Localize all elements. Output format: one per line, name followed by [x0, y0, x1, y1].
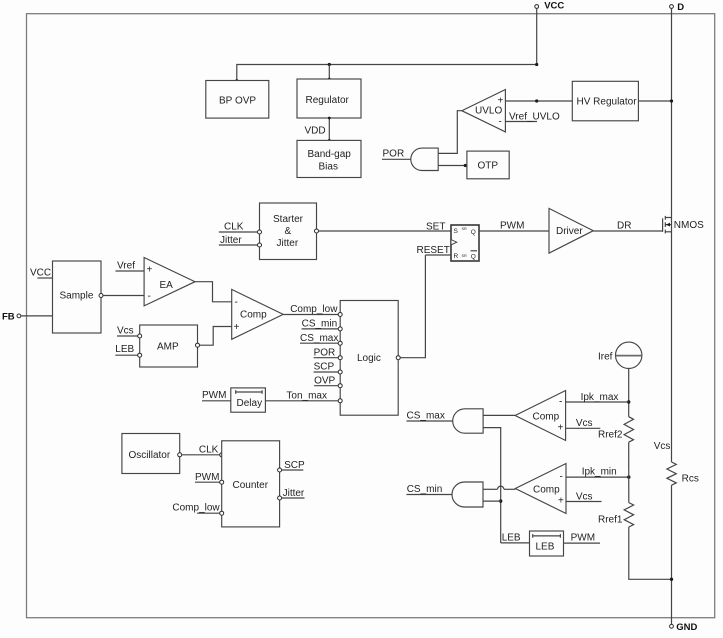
node at Rcs line: [670, 578, 673, 581]
svg-text:POR: POR: [383, 149, 405, 160]
svg-text:Bias: Bias: [319, 162, 338, 173]
svg-text:Comp: Comp: [533, 411, 560, 422]
svg-text:Rcs: Rcs: [682, 474, 699, 485]
svg-text:Jitter: Jitter: [277, 238, 299, 249]
wire Sample output to EA minus: [99, 294, 144, 298]
svg-text:Vcs: Vcs: [117, 326, 134, 337]
svg-text:Band-gap: Band-gap: [308, 149, 352, 160]
pin D: [670, 2, 685, 462]
wire gate lower input to LEB line: [483, 500, 501, 502]
block HV Regulator: [572, 81, 638, 121]
svg-text:Rref2: Rref2: [598, 430, 623, 441]
gate POR (AND): [411, 148, 438, 170]
transistor NMOS: [663, 216, 705, 234]
svg-text:PWM: PWM: [571, 533, 595, 544]
wire PWM stub into LEB block: [564, 533, 601, 544]
svg-text:+: +: [558, 423, 564, 434]
wire SET from Starter to latch: [315, 222, 452, 234]
svg-text:Rref1: Rref1: [598, 514, 623, 525]
svg-text:Starter: Starter: [273, 214, 304, 225]
wire UVLO plus input / VCC sense to HV Regulator: [505, 100, 572, 102]
svg-text:Iref: Iref: [598, 352, 613, 363]
block Logic: [340, 301, 398, 416]
wire Comp_low output to Logic: [283, 304, 340, 315]
svg-text:-: -: [499, 117, 502, 128]
wire VCC distribution top: [237, 65, 537, 81]
flip-flop SR latch: [451, 225, 479, 261]
node Ipk_max: [627, 400, 630, 403]
svg-text:GND: GND: [676, 622, 697, 633]
wire Vref stub to EA plus: [116, 261, 145, 272]
wire Jitter output stub: [278, 488, 305, 500]
svg-text:CS_max: CS_max: [300, 333, 338, 344]
node LEB at CS_min gate: [499, 499, 502, 502]
svg-text:PWM: PWM: [202, 390, 226, 401]
block Regulator: [297, 79, 361, 118]
op-amp EA: [144, 258, 195, 306]
wire Regulator drop: [328, 65, 330, 80]
svg-text:UVLO: UVLO: [475, 106, 502, 117]
wire VCC stub into Sample: [30, 268, 53, 279]
wire Rref2 to Rref1: [628, 442, 630, 502]
resistor Rref1: [598, 503, 634, 527]
wire Ipk_min to Comp minus: [566, 467, 629, 478]
svg-text:CS_min: CS_min: [302, 319, 338, 330]
wire CS_min stub into Logic: [302, 319, 341, 330]
wire PWM stub into Counter: [195, 472, 224, 484]
svg-text:Q: Q: [471, 254, 476, 261]
block Oscillator: [122, 434, 180, 474]
op-amp UVLO: [462, 90, 506, 132]
block AMP: [140, 325, 198, 367]
node Ipk_min: [627, 475, 630, 478]
wire SCP stub into Logic: [314, 362, 341, 373]
svg-text:Vcs: Vcs: [654, 441, 671, 452]
svg-text:Jitter: Jitter: [220, 235, 242, 246]
svg-text:+: +: [234, 322, 240, 333]
op-amp Comp (main): [232, 289, 284, 339]
svg-text:Q: Q: [471, 229, 476, 236]
svg-text:DR: DR: [617, 221, 631, 232]
wire VDD Regulator to Band-gap: [305, 117, 331, 142]
svg-text:CS_min: CS_min: [407, 484, 443, 495]
wire RESET vertical from Logic output: [400, 255, 425, 358]
svg-text:R: R: [454, 253, 459, 260]
svg-text:-: -: [235, 297, 238, 308]
svg-text:AMP: AMP: [157, 342, 179, 353]
svg-text:Vcs: Vcs: [576, 492, 593, 503]
svg-text:SR: SR: [462, 254, 468, 258]
svg-text:LEB: LEB: [536, 542, 555, 553]
svg-text:Regulator: Regulator: [306, 95, 350, 106]
svg-text:OTP: OTP: [478, 161, 499, 172]
buffer Driver: [549, 208, 593, 253]
svg-text:BP OVP: BP OVP: [219, 96, 256, 107]
svg-text:Ipk_min: Ipk_min: [582, 467, 617, 478]
svg-text:RESET: RESET: [417, 245, 450, 256]
wire Ipk_max to Comp minus: [566, 392, 629, 403]
block LEB: [530, 531, 564, 556]
node input circles on Logic: [338, 313, 400, 403]
wire Ton_max Delay output into Logic: [265, 391, 340, 402]
wire OTP to gate: [438, 165, 467, 167]
wire SCP output stub: [278, 460, 305, 472]
svg-text:+: +: [498, 96, 504, 107]
wire CLK input stub: [219, 222, 262, 235]
wire HV Regulator output to D line: [638, 100, 671, 102]
wire Comp output to CS_max gate: [483, 414, 515, 416]
svg-text:D: D: [677, 2, 684, 13]
svg-text:Ton_max: Ton_max: [286, 391, 327, 402]
wire Vref_UVLO stub: [505, 112, 560, 123]
wire RESET to latch: [417, 245, 452, 256]
svg-text:Jitter: Jitter: [283, 488, 305, 499]
wire Comp_low stub into Counter: [172, 503, 223, 516]
svg-text:Ipk_max: Ipk_max: [581, 392, 619, 403]
svg-text:Vref_UVLO: Vref_UVLO: [509, 112, 560, 123]
svg-text:&: &: [285, 226, 292, 237]
wire gate to LEB line (upper): [483, 428, 501, 543]
svg-text:S: S: [454, 228, 459, 235]
svg-text:Comp: Comp: [240, 310, 267, 321]
svg-text:EA: EA: [160, 280, 174, 291]
svg-text:SCP: SCP: [314, 362, 335, 373]
wire Jitter input stub: [219, 235, 262, 247]
gate CS_min (AND): [452, 482, 483, 507]
wire Rref1 bottom to Rcs line: [629, 527, 672, 579]
wire POR stub into Logic: [314, 348, 341, 359]
pin FB: [2, 312, 21, 323]
wire Vcs stub to Comp plus (lower): [566, 492, 602, 503]
current source Iref: [598, 342, 642, 368]
svg-text:Oscillator: Oscillator: [129, 450, 171, 461]
wire Iref to Ipk_max node: [628, 369, 630, 417]
svg-text:Comp_low: Comp_low: [290, 304, 338, 315]
svg-text:SET: SET: [426, 222, 445, 233]
wire AMP output to Comp plus: [196, 327, 232, 348]
wire CS_max output: [407, 410, 453, 421]
wire FB to Sample: [21, 315, 53, 317]
block Band-gap Bias: [297, 140, 361, 177]
wire CS_max stub into Logic: [300, 333, 340, 344]
svg-text:-: -: [560, 472, 563, 483]
wire PWM stub into Delay: [202, 390, 231, 401]
wire UVLO output to POR gate: [438, 111, 462, 154]
svg-text:Counter: Counter: [233, 480, 269, 491]
svg-text:Comp_low: Comp_low: [172, 503, 220, 514]
gate CS_max (AND): [453, 409, 483, 433]
svg-text:VDD: VDD: [305, 126, 326, 137]
svg-text:SR: SR: [462, 227, 468, 231]
wire LEB stub into AMP: [115, 344, 141, 357]
resistor Rref2: [598, 417, 634, 443]
svg-text:Comp: Comp: [533, 485, 560, 496]
wire Vcs stub into AMP: [117, 326, 142, 339]
svg-text:VCC: VCC: [544, 1, 564, 12]
svg-text:NMOS: NMOS: [674, 220, 704, 231]
svg-text:Sample: Sample: [60, 291, 94, 302]
wire PWM latch Q to Driver: [479, 221, 549, 232]
svg-text:+: +: [558, 496, 564, 507]
svg-text:Delay: Delay: [237, 398, 263, 409]
op-amp Comp (Ipk_max): [515, 391, 566, 441]
svg-text:-: -: [559, 397, 562, 408]
svg-text:-: -: [148, 291, 151, 302]
pin VCC: [535, 1, 565, 65]
wire CLK Oscillator to Counter: [178, 445, 224, 457]
svg-text:LEB: LEB: [115, 344, 134, 355]
pin GND: [670, 485, 698, 633]
block Sample: [53, 261, 102, 333]
svg-text:VCC: VCC: [30, 268, 51, 279]
svg-text:PWM: PWM: [195, 472, 219, 483]
svg-text:Logic: Logic: [357, 353, 381, 364]
wire OVP stub into Logic: [314, 376, 340, 387]
svg-text:LEB: LEB: [502, 533, 521, 544]
svg-text:PWM: PWM: [500, 221, 524, 232]
svg-text:Vcs: Vcs: [576, 418, 593, 429]
wire POR output: [382, 149, 411, 160]
svg-text:CLK: CLK: [199, 445, 219, 456]
block Delay: [231, 388, 266, 412]
svg-text:Driver: Driver: [556, 226, 583, 237]
wire DR Driver to NMOS gate: [593, 221, 662, 232]
block Starter & Jitter: [260, 203, 317, 260]
op-amp Comp (Ipk_min): [515, 464, 566, 514]
svg-text:Vref: Vref: [117, 261, 135, 272]
svg-text:FB: FB: [2, 312, 15, 323]
block Counter: [222, 441, 280, 527]
block OTP: [467, 151, 509, 179]
resistor Rcs: [667, 462, 699, 485]
wire LEB output to gates: [501, 533, 530, 544]
svg-text:OVP: OVP: [314, 376, 335, 387]
wire Comp output to CS_min gate with hop over LEB line: [483, 486, 515, 489]
wire CS_min output: [407, 484, 453, 495]
svg-text:CLK: CLK: [224, 222, 244, 233]
svg-text:CS_max: CS_max: [407, 410, 445, 421]
wire Vcs stub to Comp plus: [566, 418, 601, 429]
svg-text:SCP: SCP: [284, 460, 305, 471]
svg-text:+: +: [147, 265, 153, 276]
svg-text:POR: POR: [314, 348, 336, 359]
node junction on VCC wire above Regulator: [328, 63, 331, 66]
svg-text:HV Regulator: HV Regulator: [577, 97, 638, 108]
block BP OVP: [206, 81, 269, 119]
wire EA output to Comp minus: [195, 282, 232, 302]
